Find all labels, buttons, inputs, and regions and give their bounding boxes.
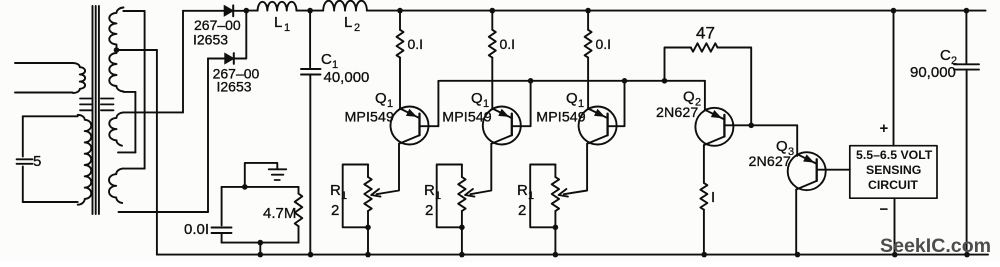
resistor 1 xyxy=(700,183,707,210)
transformer T1 secondary winding section 2 xyxy=(109,53,123,92)
svg-text:2N627: 2N627 xyxy=(656,105,698,121)
svg-text:I2653: I2653 xyxy=(217,79,252,95)
node resistor-1 rail dot xyxy=(701,252,707,258)
wire secondary top lead xyxy=(123,10,144,12)
wire section4 bottom lead xyxy=(119,211,209,213)
svg-text:47: 47 xyxy=(696,24,715,43)
wire bottom rail xyxy=(157,254,988,256)
node pot rail dot (2) xyxy=(459,252,465,258)
svg-text:Q: Q xyxy=(566,90,578,107)
wire loop bottom side (lower primary) xyxy=(23,201,78,203)
svg-text:2: 2 xyxy=(425,202,433,219)
node C2 bottom rail dot xyxy=(964,252,970,258)
node 0.1 resistor 2 rail dot xyxy=(490,8,496,14)
svg-text:1: 1 xyxy=(387,98,393,110)
node box-bottom junction dot xyxy=(258,240,264,246)
wire Q1(3) base lead xyxy=(608,81,625,126)
wire Q1(1) collector lead xyxy=(377,144,400,194)
wire Q2 base lead xyxy=(724,124,797,126)
svg-text:4.7M: 4.7M xyxy=(263,205,296,222)
wire top rail segment A xyxy=(246,10,257,12)
wire Q1(1) base lead xyxy=(420,81,439,126)
svg-text:2: 2 xyxy=(354,22,360,34)
wire box bottom side xyxy=(222,242,299,244)
svg-text:1: 1 xyxy=(483,98,489,110)
wire section2 bottom lead xyxy=(124,91,136,93)
resistor 47 xyxy=(665,48,691,81)
wire Q3 collector lead xyxy=(795,190,797,255)
wire C2 bottom lead xyxy=(966,70,968,255)
node D2-rail junction dot xyxy=(244,8,250,14)
svg-text:1: 1 xyxy=(435,190,441,202)
svg-text:R: R xyxy=(517,182,528,199)
transistor Q2 2N627 xyxy=(695,108,733,146)
capacitor C 0.01 plates xyxy=(212,228,232,234)
wire top rail segment C xyxy=(367,10,986,12)
potentiometer wiper arrow (3) xyxy=(559,189,568,197)
potentiometer R1 (2) body xyxy=(437,165,462,228)
wire box top side xyxy=(222,186,299,188)
wire secondary top drop to node xyxy=(144,11,146,169)
wire Q2 emitter riser xyxy=(704,81,706,111)
svg-text:CIRCUIT: CIRCUIT xyxy=(868,178,918,192)
node box-bottom rail dot xyxy=(258,252,264,258)
wire box left side lower xyxy=(221,233,223,243)
transformer T1 secondary winding section 1 xyxy=(109,8,123,52)
svg-text:2N627: 2N627 xyxy=(749,154,791,170)
svg-text:+: + xyxy=(880,120,889,137)
wire ground branch xyxy=(245,163,277,187)
svg-text:L: L xyxy=(274,14,282,31)
wire Q3 emitter riser xyxy=(796,125,798,156)
wire C1 bottom lead xyxy=(309,75,311,255)
wire loop left side upper xyxy=(22,116,24,156)
wire pot to bottom rail (1) xyxy=(367,227,369,254)
capacitor C1 plates xyxy=(301,69,321,75)
wire diode D1 anode drop xyxy=(182,11,184,113)
wire upper primary top lead xyxy=(15,62,73,64)
node sensing + rail dot xyxy=(891,8,897,14)
resistor 0.1 (2) xyxy=(491,11,493,30)
transformer core lines xyxy=(93,6,99,214)
wire resistor-1 to rail xyxy=(703,210,705,255)
transistor Q1 (3) MPI549 xyxy=(579,107,617,145)
node base bus dot stage2 xyxy=(528,78,534,84)
svg-text:Q: Q xyxy=(776,138,788,155)
svg-text:I2653: I2653 xyxy=(193,32,228,48)
svg-text:1: 1 xyxy=(284,22,290,34)
capacitor C2 plates xyxy=(954,64,979,69)
node C1 bottom rail dot xyxy=(308,252,314,258)
wire pot to bottom rail (3) xyxy=(554,227,556,254)
wire C1 top lead xyxy=(309,11,311,68)
transformer core bars left xyxy=(80,99,91,111)
svg-text:R: R xyxy=(330,182,341,199)
potentiometer R1 (1) body xyxy=(343,165,368,228)
svg-text:40,000: 40,000 xyxy=(324,69,370,86)
wire Q1(2) collector lead xyxy=(470,144,491,194)
svg-text:90,000: 90,000 xyxy=(910,64,956,81)
wire loop left side lower xyxy=(22,167,24,203)
wire box bottom to rail xyxy=(259,243,261,255)
capacitor 5 plates xyxy=(17,159,33,164)
wire upper primary bottom lead xyxy=(15,92,73,94)
svg-text:Q: Q xyxy=(471,90,483,107)
wire section3 top lead xyxy=(123,111,183,113)
diode D1 anode wire xyxy=(183,10,224,12)
node pot rail dot (1) xyxy=(365,252,371,258)
node base bus dot stage3 xyxy=(622,78,628,84)
node box-top junction dot xyxy=(242,184,248,190)
potentiometer wiper arrow (1) xyxy=(371,189,380,197)
node 0.1 resistor 3 rail dot xyxy=(585,8,591,14)
svg-text:L: L xyxy=(344,14,352,31)
node pot bottom junction dot (3) xyxy=(553,225,559,231)
svg-text:R: R xyxy=(424,182,435,199)
node pot bottom junction dot (1) xyxy=(365,225,371,231)
transistor Q1 (2) MPI549 xyxy=(483,107,521,145)
svg-text:1: 1 xyxy=(528,190,534,202)
svg-text:0.0I: 0.0I xyxy=(184,221,209,238)
wire ground-rail vertical xyxy=(156,50,158,255)
svg-text:C: C xyxy=(940,47,951,64)
wire D2 cathode riser xyxy=(234,11,247,59)
transformer T1 lower primary winding xyxy=(78,115,92,205)
node Q3 collector rail dot xyxy=(795,252,801,258)
ground symbol xyxy=(269,169,287,180)
svg-text:I: I xyxy=(711,189,715,206)
wire sensing - lead xyxy=(894,198,896,254)
svg-text:1: 1 xyxy=(578,98,584,110)
wire section2-to-section3 link vertical xyxy=(134,92,136,152)
wire pot to bottom rail (2) xyxy=(461,227,463,254)
node C1 junction dot xyxy=(307,8,313,14)
transistor Q1 (1) MPI549 xyxy=(391,107,429,145)
transistor Q3 2N627 xyxy=(788,152,826,190)
wire section4 top lead xyxy=(123,168,145,170)
wire box left side upper xyxy=(221,187,223,226)
svg-text:5: 5 xyxy=(33,153,41,170)
svg-text:Q: Q xyxy=(375,90,387,107)
transformer T1 secondary winding section 3 xyxy=(109,112,123,145)
transformer T1 secondary winding section 4 xyxy=(109,169,123,203)
node pot rail dot (3) xyxy=(553,252,559,258)
diode D1 xyxy=(224,6,233,16)
resistor 0.1 (1) xyxy=(399,11,401,30)
wire sensing + lead xyxy=(893,11,895,146)
diode D2 anode wire xyxy=(208,58,225,60)
wire base bus xyxy=(440,80,705,82)
potentiometer wiper arrow (2) xyxy=(465,189,474,197)
wire loop top side (lower primary) xyxy=(23,115,78,117)
wire top rail segment B xyxy=(297,10,324,12)
node pot bottom junction dot (2) xyxy=(459,225,465,231)
node sensing - rail dot xyxy=(892,252,898,258)
potentiometer R1 (3) body xyxy=(530,165,555,228)
wire Q1(2) base lead xyxy=(512,81,531,126)
transformer T1 upper primary winding xyxy=(73,63,85,93)
svg-text:SENSING: SENSING xyxy=(866,163,921,177)
node C2 rail dot xyxy=(964,8,970,14)
svg-text:2: 2 xyxy=(518,202,526,219)
svg-text:−: − xyxy=(880,201,889,218)
transformer core bars right xyxy=(101,99,114,111)
svg-text:2: 2 xyxy=(331,202,339,219)
wire section3 bottom lead xyxy=(118,151,135,153)
svg-text:SeekIC.com: SeekIC.com xyxy=(880,235,991,257)
svg-text:5.5–6.5 VOLT: 5.5–6.5 VOLT xyxy=(856,148,933,162)
resistor 4.7M (box right side) xyxy=(298,187,300,194)
node base bus dot 47-ohm xyxy=(662,78,668,84)
node 0.1 resistor 1 rail dot xyxy=(397,8,403,14)
svg-text:0.I: 0.I xyxy=(408,36,424,52)
node center-tap junction dot xyxy=(114,47,120,53)
wire Q3 base lead xyxy=(817,169,850,171)
inductor L2 xyxy=(323,1,367,11)
wire Q1(3) collector lead xyxy=(564,144,587,194)
svg-text:0.I: 0.I xyxy=(500,36,516,52)
node Q2 base junction dot xyxy=(748,123,754,129)
svg-text:MPI549: MPI549 xyxy=(345,110,395,126)
wire Q2 collector lead xyxy=(703,145,705,183)
wire diode D2 anode drop xyxy=(207,59,209,213)
svg-text:C: C xyxy=(321,51,332,68)
wire D1 cathode to rail xyxy=(233,10,246,12)
inductor L1 xyxy=(258,2,297,11)
box 5.5-6.5 VOLT SENSING CIRCUIT xyxy=(850,146,937,199)
svg-text:Q: Q xyxy=(683,89,695,106)
resistor 0.1 (3) xyxy=(587,11,589,30)
svg-text:0.I: 0.I xyxy=(596,36,612,52)
wire center-tap to ground rail xyxy=(117,49,157,51)
diode D2 xyxy=(225,53,234,63)
svg-text:1: 1 xyxy=(341,190,347,202)
wire C2 top lead xyxy=(965,11,967,64)
